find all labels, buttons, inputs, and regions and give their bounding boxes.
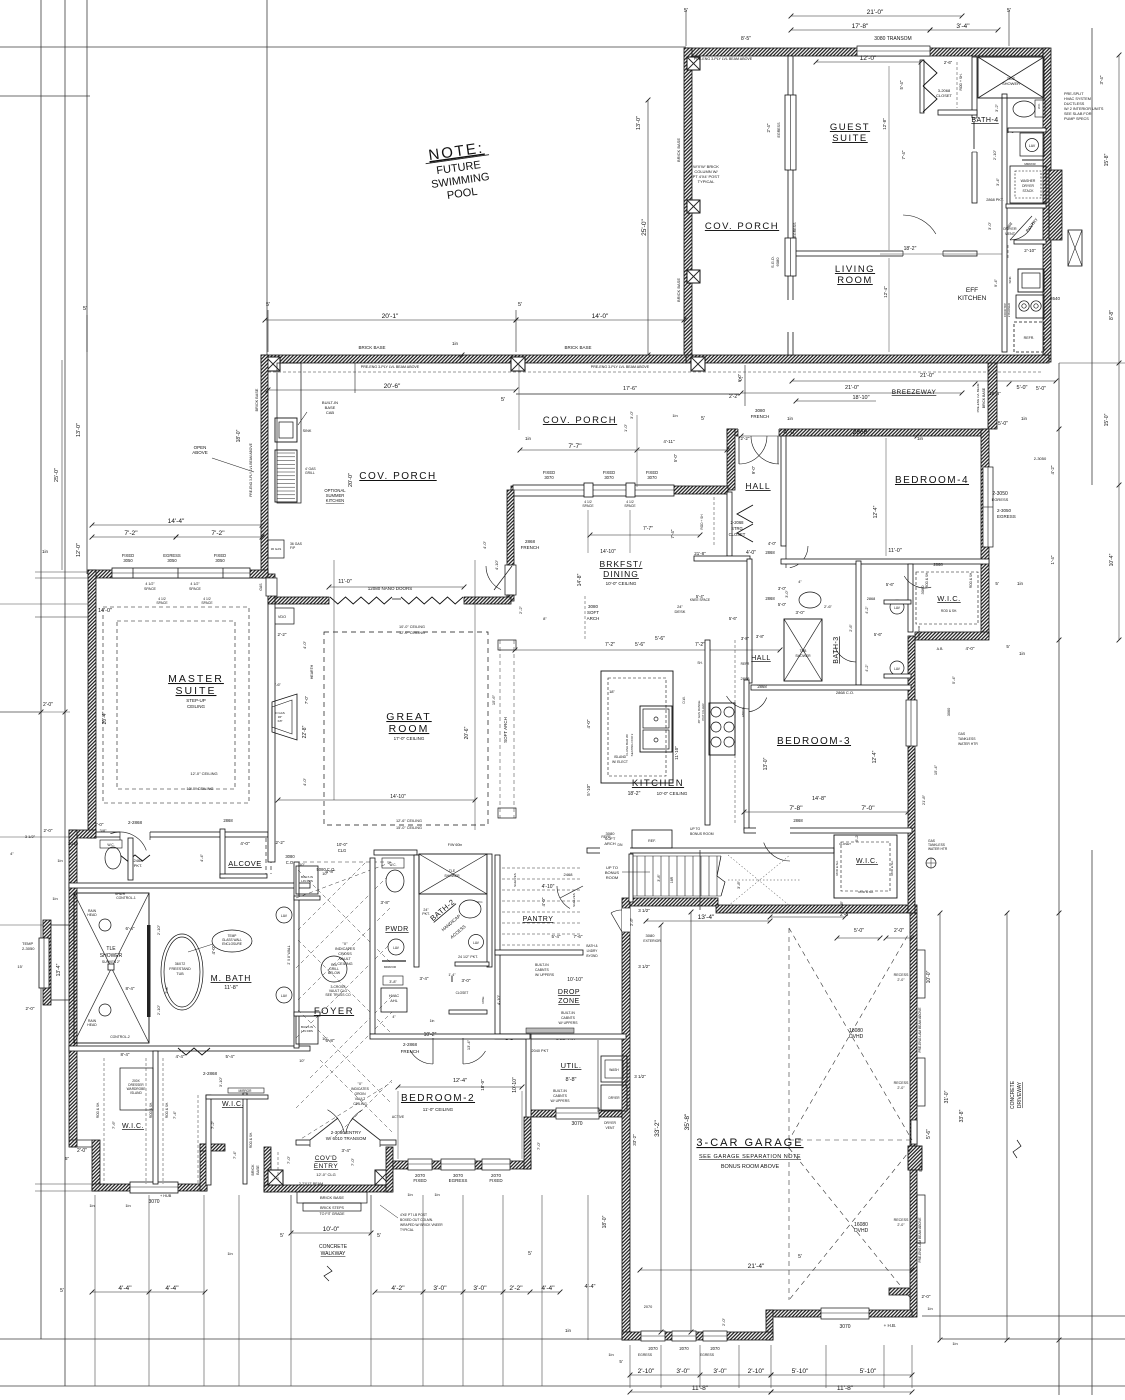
svg-text:MIRROR: MIRROR [384,965,397,969]
svg-text:FRENCH: FRENCH [401,1049,420,1054]
svg-text:10'-0" CEILING: 10'-0" CEILING [657,791,688,796]
svg-text:15': 15' [17,964,22,969]
svg-text:5'-4": 5'-4" [696,594,705,599]
svg-text:5': 5' [1006,644,1010,649]
svg-text:A.B.: A.B. [937,647,944,651]
svg-text:3050: 3050 [167,558,177,563]
svg-text:4'-2": 4'-2" [865,664,869,672]
svg-text:2'-2": 2'-2" [518,605,523,614]
svg-text:BRICK BASE: BRICK BASE [255,388,259,411]
svg-text:CLOSET: CLOSET [839,842,851,846]
svg-text:11'-8": 11'-8" [837,1385,854,1392]
svg-text:4'-11": 4'-11" [663,439,675,444]
svg-text:ROD + SH: ROD + SH [700,514,704,530]
svg-text:2'-10": 2'-10" [638,1368,655,1375]
svg-text:STEP-UP: STEP-UP [186,698,206,703]
svg-text:VENT: VENT [605,1126,614,1130]
svg-text:10'-10": 10'-10" [512,1077,518,1093]
svg-text:7'-7": 7'-7" [568,443,582,450]
svg-text:1'-0": 1'-0" [623,423,628,432]
svg-text:3-CAR GARAGE: 3-CAR GARAGE [696,1137,803,1149]
svg-text:SEATING FOR 3: SEATING FOR 3 [630,733,634,756]
svg-text:25'-0": 25'-0" [54,468,60,482]
svg-text:14'-0": 14'-0" [592,313,609,320]
svg-text:14'-8": 14'-8" [812,796,826,802]
svg-text:"X": "X" [342,942,348,946]
svg-text:7'-4": 7'-4" [232,1150,237,1159]
svg-text:4'-10": 4'-10" [496,994,501,1005]
svg-text:4'-0": 4'-0" [482,540,487,549]
svg-text:SEE GARAGE SEPARATION NOTE: SEE GARAGE SEPARATION NOTE [699,1154,801,1160]
svg-text:DRIVEWAY: DRIVEWAY [1017,1081,1023,1108]
svg-text:4'-10": 4'-10" [542,884,555,890]
svg-text:11'-10": 11'-10" [674,746,679,760]
svg-text:10": 10" [299,1058,305,1063]
svg-text:SHELVES: SHELVES [572,893,576,907]
svg-text:3 1/2": 3 1/2" [634,1074,646,1079]
svg-text:BASE: BASE [256,1165,260,1175]
svg-text:RECESS: RECESS [894,1081,909,1085]
svg-text:3050: 3050 [215,558,225,563]
svg-text:7'-2": 7'-2" [211,530,225,537]
svg-text:+ H.B.: + H.B. [884,1323,897,1328]
svg-text:9'-4": 9'-4" [993,278,998,287]
svg-text:7'-0": 7'-0" [861,805,875,812]
svg-text:2'-0": 2'-0" [43,702,53,708]
svg-text:DINING: DINING [603,569,639,579]
svg-text:5': 5' [518,302,522,308]
svg-text:2868 PKT.: 2868 PKT. [986,198,1004,202]
svg-text:PUMP SPECS: PUMP SPECS [1064,117,1089,121]
svg-text:SUITE: SUITE [832,133,867,144]
svg-text:BEDROOM-2: BEDROOM-2 [401,1093,475,1104]
svg-text:W.C.: W.C. [477,900,484,904]
svg-text:STACK: STACK [1022,189,1034,193]
svg-text:SPACE: SPACE [156,601,168,605]
svg-text:11'-8": 11'-8" [692,1385,709,1392]
svg-text:CABNTS: CABNTS [561,1016,575,1020]
svg-text:HALL: HALL [745,481,770,491]
svg-text:3'-8": 3'-8" [736,880,741,889]
svg-text:GUEST: GUEST [830,122,870,133]
svg-text:11'-0": 11'-0" [888,548,902,554]
svg-text:7'-2": 7'-2" [605,642,615,648]
svg-text:KITCHEN: KITCHEN [632,778,684,789]
svg-text:4'-0": 4'-0" [746,550,756,556]
svg-text:4'-0": 4'-0" [541,897,546,906]
svg-text:WATER HTR: WATER HTR [928,847,948,851]
svg-text:8'-5": 8'-5" [741,36,751,42]
svg-text:24 1/2" PKT.: 24 1/2" PKT. [458,955,478,959]
svg-text:SPACE: SPACE [144,587,157,591]
svg-text:5'-10": 5'-10" [586,784,591,796]
svg-text:FREESTAND: FREESTAND [169,967,191,971]
svg-text:ROD & SH.: ROD & SH. [96,1102,100,1118]
svg-text:3'-8": 3'-8" [756,634,765,639]
svg-text:LNDRY: LNDRY [587,949,599,953]
svg-text:5': 5' [619,1359,623,1364]
svg-text:UTIL.: UTIL. [561,1061,582,1070]
svg-text:SPACE: SPACE [201,601,213,605]
svg-text:BRICK BASE: BRICK BASE [982,387,986,408]
svg-text:BATH &: BATH & [586,944,598,948]
svg-text:LAV: LAV [894,667,901,671]
svg-text:1in: 1in [927,1306,932,1311]
svg-text:3'-8": 3'-8" [381,900,390,905]
svg-text:4'-4": 4'-4" [165,1285,179,1292]
svg-text:M. BATH: M. BATH [211,973,252,983]
svg-text:ARCH: ARCH [587,616,600,621]
svg-text:4 1/2": 4 1/2" [145,582,155,586]
svg-text:3'-0": 3'-0" [796,610,805,615]
svg-text:GAS: GAS [259,583,263,591]
svg-text:3070: 3070 [647,475,657,480]
svg-text:WASHER: WASHER [1021,179,1036,183]
svg-text:15'-0" CEILING: 15'-0" CEILING [396,826,422,830]
svg-text:W.C.: W.C. [390,863,397,867]
svg-text:BREEZEWAY: BREEZEWAY [892,389,937,396]
svg-text:3'-0": 3'-0" [433,1285,447,1292]
svg-text:3'-8": 3'-8" [839,900,844,909]
svg-text:7'-2": 7'-2" [210,1120,215,1129]
svg-text:TO FIT GRADE: TO FIT GRADE [319,1212,345,1216]
svg-text:2'-2": 2'-2" [509,1285,523,1292]
svg-text:FIXED: FIXED [489,1178,503,1183]
svg-text:CONTROL-1: CONTROL-1 [116,896,136,900]
svg-text:SPACE: SPACE [582,504,594,508]
svg-text:WRAPED W/ BRICK VNEER: WRAPED W/ BRICK VNEER [400,1223,443,1227]
svg-text:BRICK BASE: BRICK BASE [358,345,385,350]
svg-text:CONCRETE: CONCRETE [319,1244,348,1250]
svg-text:2'-6": 2'-6" [849,624,853,632]
svg-text:EGRESS: EGRESS [777,122,781,138]
svg-text:BEDROOM-3: BEDROOM-3 [777,736,851,747]
svg-text:17'-0" CEILING: 17'-0" CEILING [394,736,425,741]
svg-text:3 1/2": 3 1/2" [638,908,650,913]
svg-text:5'-0": 5'-0" [998,421,1008,427]
svg-text:PRE-SPLIT: PRE-SPLIT [1064,92,1084,96]
svg-text:ZONE: ZONE [558,998,579,1005]
svg-text:2-2868: 2-2868 [203,1071,218,1076]
svg-text:4'-0": 4'-0" [783,429,797,436]
svg-text:DRYER: DRYER [604,1121,616,1125]
svg-text:COV. PORCH: COV. PORCH [359,471,436,482]
svg-text:5'-4": 5'-4" [918,1163,923,1172]
svg-text:ENTRY: ENTRY [314,1163,339,1170]
svg-text:RISE: RISE [481,996,485,1003]
svg-text:EXTERIOR: EXTERIOR [643,939,661,943]
svg-text:BELOW: BELOW [328,971,341,975]
svg-text:4'-4": 4'-4" [585,1284,596,1290]
svg-text:W/ UPPERS: W/ UPPERS [558,1021,578,1025]
svg-text:21'-8": 21'-8" [694,551,706,556]
svg-text:21'-0": 21'-0" [845,385,859,391]
svg-text:FRENCH: FRENCH [521,545,540,550]
svg-text:6'-8": 6'-8" [326,1038,335,1043]
svg-text:FLUSH BAR W/: FLUSH BAR W/ [625,734,629,756]
svg-text:5'-4": 5'-4" [552,934,561,939]
svg-text:ROD & SH.: ROD & SH. [249,1132,253,1148]
svg-text:5': 5' [501,397,505,403]
svg-text:TANKLESS: TANKLESS [958,737,976,741]
svg-text:5': 5' [60,1288,64,1294]
svg-text:1in: 1in [952,1341,957,1346]
svg-text:ALCOVE: ALCOVE [228,859,261,868]
svg-text:GAS: GAS [958,732,966,736]
svg-text:DROP: DROP [558,989,580,996]
svg-text:10'-10": 10'-10" [567,977,583,983]
svg-text:25'-0": 25'-0" [641,218,648,235]
svg-text:14'-10": 14'-10" [600,549,616,555]
svg-text:2868 C.O.: 2868 C.O. [836,690,854,695]
svg-text:ISLAND: ISLAND [614,755,627,759]
svg-text:15'-6": 15'-6" [491,694,496,705]
svg-text:20'-0": 20'-0" [348,473,354,487]
svg-text:MIRROR: MIRROR [1024,162,1035,166]
svg-text:TUB: TUB [176,972,184,976]
svg-text:CONTROL-2: CONTROL-2 [110,1035,130,1039]
svg-text:WASH: WASH [609,1068,619,1072]
svg-text:KITCHEN: KITCHEN [958,295,987,302]
svg-text:3080: 3080 [755,408,766,413]
svg-text:W.I.C.: W.I.C. [856,858,878,865]
svg-text:2'-4": 2'-4" [766,123,771,132]
svg-text:7'-0": 7'-0" [350,1157,355,1166]
svg-text:10'-0" CEILING: 10'-0" CEILING [606,581,637,586]
svg-text:6'-8": 6'-8" [326,869,335,874]
svg-text:7'-0": 7'-0" [536,1141,541,1150]
svg-text:1in: 1in [1019,651,1026,656]
svg-text:1in: 1in [434,1192,439,1197]
svg-text:1in: 1in [787,416,794,421]
svg-text:W.I.C.: W.I.C. [122,1123,144,1130]
svg-text:W/ UPPERS: W/ UPPERS [550,1099,570,1103]
svg-text:3'-8": 3'-8" [657,874,661,882]
svg-text:INDICATES: INDICATES [351,1087,370,1091]
svg-text:1in: 1in [1021,416,1028,421]
svg-text:1in: 1in [672,413,677,418]
svg-text:6'-4": 6'-4" [126,926,135,931]
svg-text:BUILT-IN: BUILT-IN [553,1089,567,1093]
svg-text:5'-6": 5'-6" [886,582,895,587]
svg-text:3'-8": 3'-8" [741,636,750,641]
svg-text:2'-10": 2'-10" [748,1368,765,1375]
svg-text:2'-0": 2'-0" [26,1006,35,1011]
svg-text:CEILING: CEILING [353,1102,367,1106]
svg-text:3070: 3070 [839,1324,850,1330]
svg-text:DUCTLESS: DUCTLESS [1064,102,1085,106]
svg-text:3070: 3070 [544,475,554,480]
svg-text:20'-1": 20'-1" [382,313,399,320]
svg-text:+ HUB: + HUB [160,1194,172,1198]
svg-text:3'-8": 3'-8" [389,980,397,984]
svg-text:ROD & SH.: ROD & SH. [858,890,874,894]
svg-text:7'-0": 7'-0" [286,1155,291,1164]
svg-text:4'-0": 4'-0" [211,945,216,954]
svg-text:5": 5" [65,1156,70,1161]
svg-text:CEILING: CEILING [187,704,206,709]
svg-text:10": 10" [299,862,305,867]
svg-text:3070: 3070 [571,1121,582,1127]
svg-text:CONCRETE: CONCRETE [1010,1080,1016,1109]
svg-text:14'-8": 14'-8" [577,573,583,586]
svg-text:12'-0" CLG: 12'-0" CLG [316,1172,336,1177]
svg-text:W.I.C.: W.I.C. [937,594,960,603]
svg-text:11'-0": 11'-0" [338,579,352,585]
svg-text:18'-2": 18'-2" [904,246,917,252]
svg-text:SEE TRUSS CO: SEE TRUSS CO [325,993,351,997]
svg-text:SUITE: SUITE [176,685,217,697]
svg-text:ROOM: ROOM [606,875,618,880]
svg-text:1in: 1in [125,1203,130,1208]
svg-text:7'-0": 7'-0" [304,695,309,704]
svg-text:2070: 2070 [644,1305,652,1309]
svg-text:5'-6": 5'-6" [926,1129,932,1139]
svg-text:2'-6": 2'-6" [824,604,833,609]
svg-text:ACTIVE: ACTIVE [392,1115,405,1119]
svg-text:2'-6": 2'-6" [629,917,634,926]
svg-text:5': 5' [377,1233,381,1239]
svg-text:TLE: TLE [449,869,456,873]
svg-text:CABNTS: CABNTS [535,968,549,972]
svg-text:W/ 6010 TRANSOM: W/ 6010 TRANSOM [326,1136,367,1141]
svg-text:10'-0": 10'-0" [337,842,348,847]
svg-text:ROD & SH.: ROD & SH. [925,572,929,588]
svg-text:13'-4": 13'-4" [698,914,715,921]
svg-text:2868: 2868 [867,597,875,601]
svg-text:HVAC: HVAC [389,994,400,998]
svg-text:12'-4": 12'-4" [872,750,878,763]
svg-text:4'X6' PT LB POST: 4'X6' PT LB POST [400,1213,427,1217]
svg-text:5'-0": 5'-0" [854,928,864,934]
svg-text:2868: 2868 [853,429,868,436]
svg-text:18'-2": 18'-2" [628,791,641,797]
svg-text:SHOWER: SHOWER [444,874,460,878]
svg-text:2640: 2640 [1050,296,1061,301]
svg-text:5': 5' [798,1254,802,1260]
svg-text:3080: 3080 [646,933,656,938]
svg-text:2-2068: 2-2068 [730,520,744,525]
svg-text:ROD & SH.: ROD & SH. [969,572,973,588]
svg-text:3'-4": 3'-4" [956,23,970,30]
svg-text:8'-4": 8'-4" [126,986,135,991]
svg-text:3'-0": 3'-0" [778,586,787,591]
svg-text:4'-0": 4'-0" [768,541,777,546]
svg-text:4'-4": 4'-4" [176,1054,185,1059]
svg-text:COV'D: COV'D [315,1155,338,1162]
svg-text:10'-0": 10'-0" [926,970,932,983]
svg-text:4'-0": 4'-0" [302,640,307,649]
svg-text:21'-4": 21'-4" [748,1263,765,1270]
svg-text:CABNTS: CABNTS [553,1094,567,1098]
svg-text:5'-6": 5'-6" [655,636,665,642]
svg-text:SPACE: SPACE [624,504,636,508]
svg-text:REF.: REF. [648,839,656,843]
svg-text:2 BURNER: 2 BURNER [1007,303,1011,317]
svg-text:12'-0" CEILING: 12'-0" CEILING [399,631,425,635]
svg-text:2040 PKT: 2040 PKT [532,1049,550,1053]
svg-text:SUNKEN 2": SUNKEN 2" [102,960,121,964]
svg-text:1in: 1in [52,896,57,901]
svg-text:1in: 1in [57,858,62,863]
svg-text:LAV: LAV [894,606,901,610]
svg-text:GRILL: GRILL [305,471,315,475]
svg-text:4'-0": 4'-0" [302,777,307,786]
svg-text:18'-0": 18'-0" [236,429,242,442]
svg-text:W.I.C.: W.I.C. [222,1101,244,1108]
svg-text:5'-4": 5'-4" [226,1054,235,1059]
svg-text:EGRESS: EGRESS [997,514,1016,519]
svg-text:2'-0": 2'-0" [897,1223,905,1227]
svg-text:3 1/2": 3 1/2" [25,834,36,839]
svg-text:WALKWAY: WALKWAY [321,1251,346,1257]
svg-text:TLE: TLE [106,946,116,952]
svg-text:4 1/2": 4 1/2" [190,582,200,586]
svg-text:REFR: REFR [741,662,750,666]
svg-text:PANTRY: PANTRY [523,916,554,923]
svg-text:2'-2": 2'-2" [741,436,750,441]
svg-text:8'-8": 8'-8" [1109,310,1115,320]
svg-text:14'-10": 14'-10" [390,794,406,800]
svg-text:8'-4": 8'-4" [121,1052,130,1057]
svg-text:5': 5' [995,581,999,586]
svg-text:2'-0": 2'-0" [77,1148,87,1154]
svg-text:5': 5' [528,1251,532,1257]
svg-text:3'-0": 3'-0" [629,410,634,419]
svg-text:14'-0": 14'-0" [98,608,112,614]
svg-text:DRYER: DRYER [1003,227,1016,231]
svg-text:12'-4": 12'-4" [873,505,879,518]
svg-text:LIVING: LIVING [835,264,875,275]
svg-text:ROOM: ROOM [837,275,873,286]
svg-text:7'-8": 7'-8" [789,805,803,812]
svg-text:3080 TRANSOM: 3080 TRANSOM [874,36,911,42]
svg-text:SHOWER: SHOWER [100,953,123,959]
svg-text:BONUS ROOM ABOVE: BONUS ROOM ABOVE [721,1164,780,1170]
svg-text:2868: 2868 [223,818,233,823]
svg-text:35'-8": 35'-8" [684,1113,691,1130]
svg-text:5'-0": 5'-0" [673,453,678,462]
svg-text:HEAD: HEAD [87,1023,97,1027]
svg-text:2'-0": 2'-0" [922,1294,931,1299]
svg-text:14'-4": 14'-4" [168,518,185,525]
svg-text:LAV: LAV [473,941,480,945]
svg-text:5'-0": 5'-0" [778,602,787,607]
svg-text:LIN DRS: LIN DRS [301,879,313,883]
svg-text:1in: 1in [608,1352,613,1357]
svg-text:COOKTOP: COOKTOP [1003,303,1007,317]
svg-text:EGRESS: EGRESS [992,497,1009,502]
svg-text:18": 18" [609,689,615,694]
svg-text:2-3050: 2-3050 [997,508,1012,513]
svg-text:17'-8": 17'-8" [852,23,869,30]
svg-text:31'-0": 31'-0" [944,1090,950,1103]
svg-text:13'-4": 13'-4" [56,963,62,976]
svg-text:16R: 16R [670,876,674,883]
svg-text:5': 5' [739,377,743,383]
svg-text:13'-0": 13'-0" [763,757,769,770]
svg-text:MIRROR: MIRROR [239,1089,253,1093]
svg-text:ENCLOSURE: ENCLOSURE [222,942,242,946]
svg-text:LAV: LAV [1029,144,1036,148]
svg-text:2'-0": 2'-0" [897,1086,905,1090]
svg-text:W/ 2 INTERIOR UNITS: W/ 2 INTERIOR UNITS [1064,107,1104,111]
svg-text:3050: 3050 [123,558,133,563]
svg-text:EGRESS: EGRESS [793,222,797,238]
svg-text:10'-0" CEILING: 10'-0" CEILING [399,625,425,629]
svg-text:5'-2": 5'-2" [855,834,859,842]
svg-text:FIXED: FIXED [413,1178,427,1183]
